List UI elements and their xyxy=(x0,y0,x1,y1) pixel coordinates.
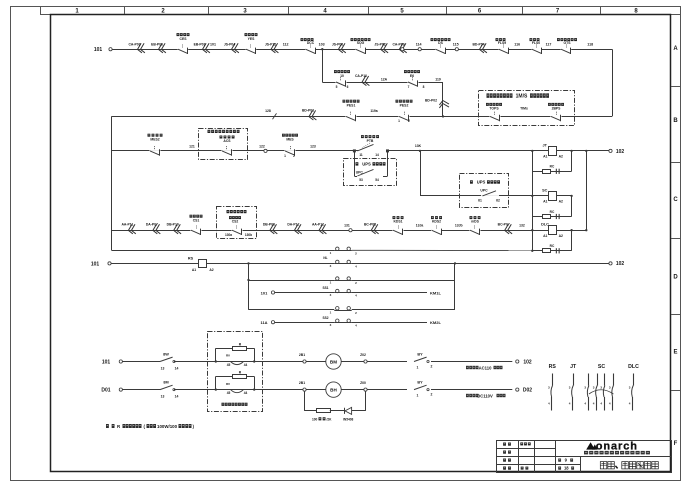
svg-text:14: 14 xyxy=(175,367,179,371)
svg-text:UPC: UPC xyxy=(356,170,364,174)
svg-text:A: A xyxy=(673,46,678,52)
svg-text:E6: E6 xyxy=(410,74,414,78)
svg-text:132: 132 xyxy=(519,223,525,227)
svg-text:11: 11 xyxy=(359,153,363,157)
svg-text:114: 114 xyxy=(416,43,422,47)
svg-text:117: 117 xyxy=(546,43,552,47)
svg-text:2B1: 2B1 xyxy=(299,381,305,385)
svg-text:100W/100: 100W/100 xyxy=(157,424,178,429)
svg-text:DC110V: DC110V xyxy=(477,393,493,398)
svg-text:SOG: SOG xyxy=(357,41,365,45)
svg-text:JS-P06: JS-P06 xyxy=(332,42,343,46)
svg-text:AC110: AC110 xyxy=(479,365,492,370)
svg-text:118: 118 xyxy=(587,43,593,47)
svg-text:101: 101 xyxy=(210,43,216,47)
svg-text:1: 1 xyxy=(417,394,419,398)
svg-text:8W: 8W xyxy=(163,352,169,356)
svg-text:SC: SC xyxy=(542,188,548,192)
svg-text:FLS0: FLS0 xyxy=(532,41,540,45)
svg-text:102: 102 xyxy=(616,149,625,155)
svg-text:2: 2 xyxy=(431,393,433,397)
svg-text:1: 1 xyxy=(284,154,286,158)
svg-text:BC-P07: BC-P07 xyxy=(498,223,510,227)
svg-text:NL: NL xyxy=(323,256,327,260)
svg-text:IN5408: IN5408 xyxy=(343,417,354,421)
svg-text:A2: A2 xyxy=(559,155,563,159)
svg-text:2: 2 xyxy=(293,154,295,158)
svg-text:Z02: Z02 xyxy=(360,353,366,357)
svg-text:RS: RS xyxy=(549,364,557,370)
svg-text:RV: RV xyxy=(226,382,230,386)
svg-text:123: 123 xyxy=(310,145,316,149)
svg-text:RS: RS xyxy=(188,257,194,261)
svg-text:101: 101 xyxy=(91,261,100,267)
svg-text:13: 13 xyxy=(161,395,165,399)
svg-text:103: 103 xyxy=(319,43,325,47)
svg-text:44: 44 xyxy=(244,391,248,395)
svg-text:8: 8 xyxy=(423,85,425,89)
svg-text:DA-P07: DA-P07 xyxy=(146,223,158,227)
svg-text:DA-P12: DA-P12 xyxy=(287,223,299,227)
svg-text:12A: 12A xyxy=(381,78,388,82)
svg-text:8M: 8M xyxy=(163,381,168,385)
svg-text:2: 2 xyxy=(431,364,433,368)
svg-text:EB-P03: EB-P03 xyxy=(194,42,206,46)
svg-text:onarch: onarch xyxy=(596,441,638,453)
svg-text:A2: A2 xyxy=(559,200,563,204)
svg-text:TOPS: TOPS xyxy=(489,106,499,110)
svg-text:SC: SC xyxy=(598,364,605,370)
svg-text:PTB: PTB xyxy=(367,139,374,143)
svg-text:7: 7 xyxy=(408,85,410,89)
svg-text:14: 14 xyxy=(375,153,379,157)
svg-text:KM2L: KM2L xyxy=(430,320,441,325)
svg-text:mDS: mDS xyxy=(471,219,479,223)
svg-text:A1: A1 xyxy=(543,155,547,159)
svg-text:131: 131 xyxy=(344,223,350,227)
svg-text:6: 6 xyxy=(347,85,349,89)
svg-text:18: 18 xyxy=(564,466,569,471)
svg-text:D: D xyxy=(673,275,678,281)
svg-text:AA-P11: AA-P11 xyxy=(121,223,133,227)
svg-text:128: 128 xyxy=(265,109,271,113)
svg-text:130a: 130a xyxy=(225,233,232,237)
svg-text:61: 61 xyxy=(478,198,482,202)
svg-text:BD-P02: BD-P02 xyxy=(425,99,437,103)
svg-text:122: 122 xyxy=(259,145,265,149)
svg-text:112: 112 xyxy=(283,43,289,47)
svg-text:101: 101 xyxy=(261,290,268,295)
svg-text:115: 115 xyxy=(453,43,459,47)
svg-text:5: 5 xyxy=(336,85,338,89)
svg-text:DLC: DLC xyxy=(541,223,549,227)
svg-text:1M/S: 1M/S xyxy=(516,93,528,99)
svg-text:PES2: PES2 xyxy=(400,104,409,108)
svg-text:CS2: CS2 xyxy=(232,219,239,223)
svg-text:UPS: UPS xyxy=(477,180,486,185)
svg-text:2BPS: 2BPS xyxy=(552,106,562,110)
svg-text:13: 13 xyxy=(161,367,165,371)
svg-text:D01: D01 xyxy=(101,388,110,394)
svg-text:RV: RV xyxy=(226,354,230,358)
svg-text:A2: A2 xyxy=(559,234,563,238)
svg-text:E: E xyxy=(673,350,677,356)
svg-text:OTS: OTS xyxy=(564,41,572,45)
svg-text:121: 121 xyxy=(189,145,195,149)
svg-text:MES: MES xyxy=(286,137,294,141)
svg-text:45: 45 xyxy=(227,363,231,367)
svg-text:45: 45 xyxy=(227,391,231,395)
svg-text:KDS1: KDS1 xyxy=(393,219,402,223)
svg-text:ACS: ACS xyxy=(223,139,231,143)
svg-text:RC: RC xyxy=(550,210,555,214)
svg-text:1: 1 xyxy=(417,365,419,369)
svg-text:RC: RC xyxy=(550,244,555,248)
svg-text:BH: BH xyxy=(330,388,337,393)
svg-text:JT: JT xyxy=(543,143,548,147)
svg-text:DB-P08: DB-P08 xyxy=(263,223,275,227)
svg-text:A2: A2 xyxy=(209,268,213,272)
svg-text:1: 1 xyxy=(398,119,400,123)
svg-text:YES: YES xyxy=(248,37,256,41)
svg-text:130b: 130b xyxy=(245,233,252,237)
svg-text:A1: A1 xyxy=(192,268,196,272)
svg-text:JS-P04: JS-P04 xyxy=(224,42,235,46)
svg-text:A1: A1 xyxy=(543,234,547,238)
svg-text:MES2: MES2 xyxy=(150,137,159,141)
svg-text:BY: BY xyxy=(417,381,423,385)
svg-text:44: 44 xyxy=(244,363,248,367)
svg-text:119a: 119a xyxy=(370,109,377,113)
svg-text:2: 2 xyxy=(408,119,410,123)
svg-text:BD-P14: BD-P14 xyxy=(472,42,484,46)
svg-text:B: B xyxy=(673,118,678,124)
svg-text:PES1: PES1 xyxy=(347,104,356,108)
svg-text:BY: BY xyxy=(417,352,423,356)
svg-text:13K: 13K xyxy=(415,144,422,148)
svg-text:13Jb: 13Jb xyxy=(455,223,463,227)
svg-text:RC: RC xyxy=(550,165,555,169)
svg-text:100: 100 xyxy=(312,417,318,421)
svg-text:DS: DS xyxy=(438,41,443,45)
svg-text:119: 119 xyxy=(435,77,441,81)
svg-text:D02: D02 xyxy=(523,388,532,394)
svg-text:14: 14 xyxy=(175,395,179,399)
svg-text:SS1: SS1 xyxy=(322,286,328,290)
svg-text:JT: JT xyxy=(570,364,577,370)
svg-text:102: 102 xyxy=(616,261,625,267)
svg-text:CA-P10: CA-P10 xyxy=(355,74,367,78)
svg-text:KM1L: KM1L xyxy=(430,291,441,296)
svg-text:TIMs: TIMs xyxy=(520,106,528,110)
svg-text:F: F xyxy=(674,441,678,447)
svg-text:11A: 11A xyxy=(260,320,267,325)
svg-text:10: 10 xyxy=(340,74,344,78)
svg-text:CA-P03: CA-P03 xyxy=(128,42,140,46)
svg-text:CS1: CS1 xyxy=(193,218,200,222)
svg-text:62: 62 xyxy=(496,198,500,202)
svg-text:DLC: DLC xyxy=(628,364,639,370)
svg-text:AA-P12: AA-P12 xyxy=(312,223,324,227)
svg-text:FLS9: FLS9 xyxy=(498,41,506,45)
svg-text:13Ja: 13Ja xyxy=(416,223,424,227)
svg-text:CES: CES xyxy=(180,37,188,41)
svg-text:JS-P12: JS-P12 xyxy=(265,42,276,46)
svg-text:BD-P03: BD-P03 xyxy=(302,109,314,113)
svg-text:UPC: UPC xyxy=(480,188,488,192)
svg-text:102: 102 xyxy=(523,359,532,365)
svg-text:KDS2: KDS2 xyxy=(432,219,441,223)
svg-text:2B1: 2B1 xyxy=(299,353,305,357)
svg-text:101: 101 xyxy=(94,47,103,53)
svg-text:C: C xyxy=(673,197,678,203)
svg-text:UPS: UPS xyxy=(362,162,371,167)
svg-text:53: 53 xyxy=(359,178,363,182)
svg-text:BC-P05: BC-P05 xyxy=(364,223,376,227)
svg-text:DB-P10: DB-P10 xyxy=(167,223,179,227)
svg-text:Z00: Z00 xyxy=(360,381,366,385)
svg-text:JS-P02: JS-P02 xyxy=(374,42,385,46)
svg-text:SS2: SS2 xyxy=(322,316,328,320)
svg-text:/2K: /2K xyxy=(327,417,333,421)
svg-text:A1: A1 xyxy=(543,200,547,204)
svg-text:DCC: DCC xyxy=(307,41,315,45)
svg-text:EB-P06: EB-P06 xyxy=(151,42,163,46)
svg-text:BM: BM xyxy=(330,360,337,365)
svg-text:CA-P09: CA-P09 xyxy=(392,42,404,46)
svg-text:54: 54 xyxy=(375,178,379,182)
svg-text:101: 101 xyxy=(102,359,111,365)
svg-text:116: 116 xyxy=(514,43,520,47)
